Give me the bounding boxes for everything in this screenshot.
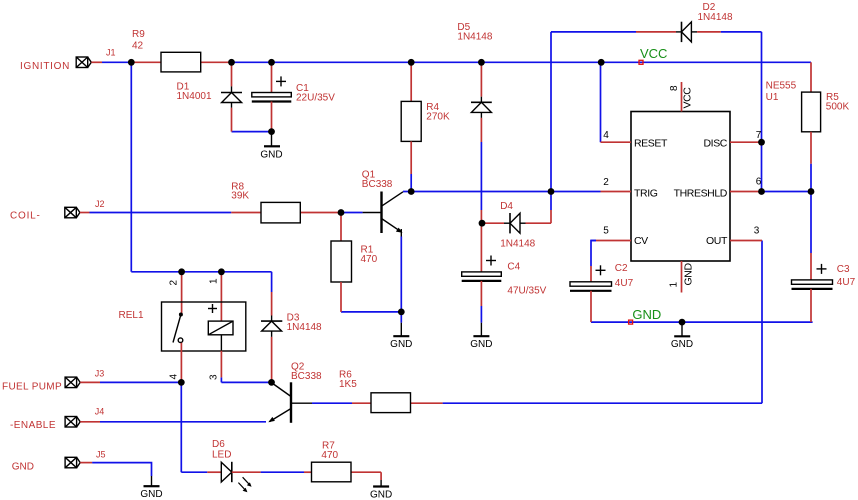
svg-text:J1: J1 [106, 47, 116, 57]
svg-text:1N4001: 1N4001 [177, 91, 212, 102]
junction [218, 268, 225, 275]
junction [178, 268, 185, 275]
junction [338, 209, 345, 216]
resistor R6 [352, 393, 443, 413]
svg-text:DISC: DISC [704, 137, 728, 149]
svg-text:COIL-: COIL- [10, 211, 41, 222]
relay REL1 [162, 272, 246, 383]
svg-text:TRIG: TRIG [634, 188, 658, 200]
svg-text:J3: J3 [95, 368, 105, 378]
wire [220, 377, 222, 382]
transistor Q2 [268, 382, 312, 423]
svg-text:3: 3 [208, 374, 219, 380]
wire [550, 32, 552, 192]
pin 7 DISC [704, 130, 762, 149]
junction [478, 59, 485, 66]
svg-text:GND: GND [140, 489, 162, 500]
wire [591, 241, 596, 267]
junction [268, 379, 275, 386]
svg-text:1N4148: 1N4148 [287, 322, 322, 333]
svg-text:GND: GND [470, 339, 492, 350]
connector J3 [65, 377, 100, 388]
transistor Q1 [363, 192, 403, 237]
svg-text:BC338: BC338 [362, 179, 393, 190]
junction [398, 309, 405, 316]
svg-text:GND: GND [370, 489, 392, 500]
svg-text:R9: R9 [132, 29, 145, 40]
wire [100, 381, 181, 383]
svg-text:470: 470 [361, 254, 378, 265]
resistor R9 [131, 52, 231, 72]
junction [408, 59, 415, 66]
wire [261, 471, 304, 473]
wire [721, 31, 762, 33]
connector J1 [76, 57, 102, 68]
svg-text:C2: C2 [615, 263, 628, 274]
diode D1 [221, 62, 242, 131]
svg-text:OUT: OUT [706, 235, 728, 247]
diode D2 [636, 22, 721, 42]
wire [480, 142, 482, 210]
resistor R5 [802, 62, 821, 163]
svg-text:8: 8 [669, 85, 680, 91]
pin 2 TRIG [601, 177, 658, 200]
svg-text:470: 470 [321, 450, 338, 461]
junction [758, 188, 765, 195]
svg-text:4: 4 [603, 130, 609, 141]
svg-text:1K5: 1K5 [339, 379, 357, 390]
wire [591, 321, 813, 323]
wire [810, 164, 812, 192]
wire [102, 61, 131, 63]
wire [221, 381, 271, 383]
pin 1 GND [669, 261, 695, 293]
svg-text:500K: 500K [826, 102, 850, 113]
svg-text:THRESHLD: THRESHLD [674, 188, 728, 200]
svg-text:47U/35V: 47U/35V [507, 286, 546, 297]
svg-text:CV: CV [634, 235, 648, 247]
wire [312, 402, 352, 404]
junction [679, 319, 686, 326]
wire [762, 191, 812, 193]
wire [180, 382, 182, 472]
wire [761, 241, 763, 404]
junction [548, 188, 555, 195]
wire [232, 131, 272, 133]
wire [90, 212, 232, 214]
junction [479, 220, 486, 227]
svg-text:3: 3 [754, 226, 760, 237]
capacitor C3 [792, 253, 833, 322]
diode D5 [471, 62, 492, 142]
pin 5 CV [596, 226, 648, 248]
svg-text:1: 1 [209, 278, 220, 284]
wire [410, 174, 412, 192]
wire [403, 191, 601, 193]
junction [228, 59, 235, 66]
wire [341, 311, 401, 313]
ground at C1 [260, 134, 282, 160]
capacitor C2 [570, 265, 612, 322]
net marker GND [629, 320, 633, 324]
svg-text:IGNITION: IGNITION [20, 61, 70, 72]
svg-text:J4: J4 [95, 406, 105, 416]
wire [761, 32, 763, 192]
diode D4 [482, 210, 551, 233]
resistor R4 [401, 62, 421, 174]
capacitor C4 [462, 210, 502, 306]
svg-text:FUEL PUMP: FUEL PUMP [2, 382, 62, 393]
junction [128, 59, 135, 66]
ground at Q1 emitter [390, 323, 412, 350]
wire [400, 237, 402, 312]
svg-text:1: 1 [669, 282, 680, 288]
LED D6 [207, 462, 260, 492]
svg-text:42: 42 [132, 41, 144, 52]
net marker VCC [639, 60, 643, 64]
junction [408, 188, 415, 195]
wire [92, 463, 151, 476]
wire [443, 402, 762, 404]
svg-text:1N4148: 1N4148 [457, 31, 492, 42]
svg-text:39K: 39K [231, 191, 249, 202]
diode D3 [261, 292, 282, 382]
wire [181, 471, 207, 473]
wire [341, 212, 363, 214]
svg-text:RESET: RESET [634, 137, 668, 149]
svg-text:VCC: VCC [640, 46, 667, 61]
wire [271, 272, 273, 292]
wire [600, 62, 602, 142]
resistor R1 [331, 213, 352, 312]
wire [100, 421, 266, 423]
ground at R7 [370, 480, 392, 500]
svg-text:2: 2 [603, 177, 609, 188]
resistor R7 [304, 462, 381, 482]
wire [550, 192, 552, 211]
svg-text:1N4148: 1N4148 [500, 239, 535, 250]
svg-text:NE555: NE555 [766, 81, 797, 92]
svg-text:GND: GND [12, 462, 34, 473]
svg-text:1N4148: 1N4148 [698, 12, 733, 23]
connector J4 [65, 417, 100, 428]
svg-text:VCC: VCC [682, 87, 694, 109]
svg-text:4U7: 4U7 [837, 277, 856, 288]
svg-text:BC338: BC338 [291, 371, 322, 382]
connector J2 [65, 207, 90, 218]
svg-text:22U/35V: 22U/35V [296, 92, 335, 103]
svg-text:REL1: REL1 [119, 310, 144, 321]
wire [232, 61, 812, 63]
pin 6 THRESHLD [674, 177, 762, 200]
junction [758, 139, 765, 146]
svg-text:4: 4 [169, 374, 180, 380]
IC U1 NE555 box [631, 112, 730, 262]
ground at rail [671, 325, 693, 351]
svg-text:GND: GND [390, 339, 412, 350]
wire [810, 192, 812, 254]
svg-text:J2: J2 [95, 199, 105, 209]
svg-text:D4: D4 [500, 201, 513, 212]
svg-text:GND: GND [683, 263, 695, 286]
connector J5 [65, 457, 92, 468]
svg-text:4U7: 4U7 [615, 278, 634, 289]
svg-text:J5: J5 [96, 450, 106, 460]
ground at J5 [140, 476, 162, 500]
wire [551, 31, 636, 33]
wire [400, 312, 402, 323]
svg-text:2: 2 [169, 280, 180, 286]
junction [598, 59, 605, 66]
junction [268, 59, 275, 66]
svg-text:C4: C4 [507, 261, 520, 272]
svg-text:LED: LED [212, 449, 231, 460]
wire [480, 306, 482, 323]
svg-text:6: 6 [756, 177, 762, 188]
pin 3 OUT [706, 226, 762, 248]
wire [130, 62, 132, 271]
wire [591, 240, 596, 242]
svg-text:C3: C3 [837, 264, 850, 275]
junction [178, 379, 185, 386]
svg-text:GND: GND [260, 149, 282, 160]
svg-text:U1: U1 [766, 92, 779, 103]
pin 8 VCC [669, 82, 694, 112]
junction [268, 128, 275, 135]
wire [131, 271, 271, 273]
svg-text:-ENABLE: -ENABLE [10, 420, 56, 431]
svg-text:GND: GND [632, 307, 661, 322]
svg-text:5: 5 [603, 226, 609, 237]
pin 4 RESET [601, 130, 668, 149]
resistor R8 [231, 202, 341, 223]
ground at C4 [470, 323, 492, 350]
svg-text:270K: 270K [426, 112, 450, 123]
junction [808, 188, 815, 195]
svg-text:GND: GND [671, 339, 693, 350]
capacitor C1 [252, 62, 291, 131]
